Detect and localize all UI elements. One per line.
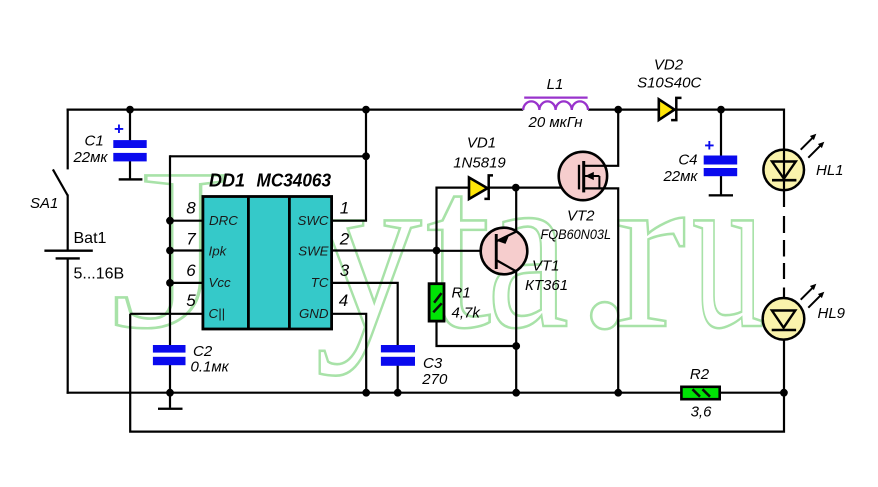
- wire pin6: [170, 282, 202, 284]
- node pin7: [166, 247, 174, 255]
- svg-text:4: 4: [339, 291, 348, 310]
- svg-text:DRC: DRC: [209, 213, 238, 228]
- svg-text:3,6: 3,6: [691, 404, 713, 421]
- svg-text:C3: C3: [423, 355, 443, 372]
- LED HL9: [763, 284, 825, 340]
- LED HL1: [763, 134, 824, 191]
- wire VT1 emitter up: [515, 188, 517, 233]
- wire R1 top: [435, 251, 437, 284]
- node VD1 cathode gate: [512, 184, 520, 192]
- svg-text:S10S40C: S10S40C: [637, 75, 701, 92]
- svg-text:1N5819: 1N5819: [453, 155, 506, 172]
- node pin6: [166, 279, 174, 287]
- svg-text:5...16В: 5...16В: [74, 266, 125, 283]
- svg-text:2: 2: [339, 230, 350, 249]
- node R2 right: [780, 389, 788, 397]
- svg-text:8: 8: [186, 199, 196, 218]
- svg-text:20 мкГн: 20 мкГн: [528, 114, 583, 131]
- node R1 bottom: [512, 342, 520, 350]
- node pin8: [166, 217, 174, 225]
- svg-text:SWC: SWC: [297, 213, 328, 228]
- wire VT2 drain to L1 node: [584, 110, 619, 166]
- svg-text:Ipk: Ipk: [209, 244, 228, 259]
- node pin4 ground: [362, 389, 370, 397]
- svg-text:TC: TC: [311, 275, 329, 290]
- svg-text:FQB60N03L: FQB60N03L: [541, 227, 612, 242]
- wire C2 bottom to rail: [169, 365, 171, 393]
- wire R1 bottom to collector: [437, 322, 517, 347]
- resistor R1: [429, 284, 444, 321]
- svg-text:6: 6: [186, 261, 196, 280]
- capacitor C4: [704, 136, 738, 197]
- battery Bat1: [44, 195, 92, 259]
- transistor VT2 FQB60N03L: [559, 152, 607, 200]
- wire top rail left of L1: [67, 108, 524, 110]
- svg-text:VD2: VD2: [654, 57, 684, 74]
- inductor L1: [523, 98, 588, 110]
- wire top rail right of L1: [588, 108, 784, 110]
- wire VD1 cathode to gate node: [489, 187, 579, 189]
- wire pin2 SWE: [332, 249, 437, 251]
- wire R2 right to junction: [721, 392, 784, 394]
- wire C4 bottom: [720, 176, 722, 195]
- wire pin4 GND down: [332, 314, 366, 393]
- wire VD1 anode branch: [437, 188, 469, 251]
- capacitor C1: [113, 120, 146, 181]
- node Vcc feed top: [362, 106, 370, 114]
- wire dashed HL1-HL9: [783, 216, 785, 279]
- svg-text:Vcc: Vcc: [209, 275, 232, 290]
- svg-text:SWE: SWE: [298, 244, 328, 259]
- svg-text:7: 7: [186, 230, 196, 249]
- svg-text:5: 5: [186, 291, 196, 310]
- resistor R2: [681, 387, 719, 399]
- node C4 top: [717, 106, 725, 114]
- wire pin7: [170, 249, 202, 251]
- node C3 ground: [394, 389, 402, 397]
- wire pin3 TC to C3: [332, 283, 398, 346]
- svg-text:C1: C1: [85, 133, 104, 150]
- node C2 ground: [166, 389, 174, 397]
- wire VT1 collector down: [515, 271, 517, 393]
- svg-text:HL1: HL1: [816, 162, 844, 179]
- svg-text:SA1: SA1: [30, 195, 58, 212]
- wire left feed vertical: [169, 155, 171, 345]
- svg-text:VT2: VT2: [567, 208, 595, 225]
- ground bar under C2: [158, 393, 183, 410]
- wire C1 bottom: [129, 161, 131, 179]
- wire left rail top (to switch): [67, 109, 69, 170]
- svg-text:VT1: VT1: [532, 258, 560, 275]
- wire right corner down to HL1: [783, 109, 785, 151]
- svg-text:L1: L1: [547, 76, 564, 93]
- wire Vcc vertical pin1: [332, 110, 366, 221]
- wire VT2 source to ground: [584, 188, 619, 392]
- svg-text:22мк: 22мк: [72, 149, 108, 166]
- transistor VT1 KT361: [481, 228, 528, 275]
- svg-text:4,7k: 4,7k: [452, 305, 482, 322]
- wire feed horizontal: [170, 155, 366, 157]
- wire lower sense rail: [130, 314, 784, 432]
- svg-text:+: +: [704, 136, 714, 155]
- svg-text:КТ361: КТ361: [525, 277, 568, 294]
- node VT2 source ground: [614, 389, 622, 397]
- diode VD2 S10S40C: [659, 98, 682, 120]
- wire C4 top: [720, 110, 722, 156]
- diode VD1 1N5819: [469, 175, 493, 199]
- svg-text:+: +: [114, 120, 124, 139]
- svg-text:1: 1: [340, 199, 349, 218]
- svg-text:Bat1: Bat1: [74, 230, 107, 247]
- node L1 out: [614, 106, 622, 114]
- node VT1 collector ground: [512, 389, 520, 397]
- capacitor C2: [153, 345, 186, 365]
- svg-text:22мк: 22мк: [662, 168, 698, 185]
- svg-text:R2: R2: [690, 366, 710, 383]
- wire C3 bottom: [397, 365, 399, 392]
- svg-text:3: 3: [340, 261, 350, 280]
- wire battery to bottom rail: [67, 258, 69, 393]
- watermark Joyta.ru: [110, 121, 764, 376]
- svg-text:R1: R1: [452, 285, 471, 302]
- node feed T: [362, 152, 370, 160]
- svg-text:GND: GND: [299, 306, 329, 321]
- wire pin5 C||: [130, 313, 202, 315]
- wire HL9 vertical: [783, 288, 785, 393]
- node C1 top: [126, 106, 134, 114]
- svg-text:0.1мк: 0.1мк: [191, 358, 230, 375]
- svg-text:270: 270: [421, 371, 448, 388]
- switch SA1: [53, 169, 68, 195]
- wire pin8: [170, 220, 202, 222]
- wire HL1 vertical: [783, 149, 785, 207]
- svg-text:MC34063: MC34063: [257, 170, 332, 190]
- node VD1 anode: [433, 247, 441, 255]
- svg-text:VD1: VD1: [467, 135, 496, 152]
- svg-text:HL9: HL9: [818, 305, 846, 322]
- svg-text:C4: C4: [678, 152, 697, 169]
- capacitor C3: [381, 345, 415, 366]
- wire ground rail: [67, 392, 681, 394]
- wire VT1 base: [437, 250, 496, 252]
- svg-text:C||: C||: [209, 306, 226, 321]
- svg-text:DD1: DD1: [209, 170, 245, 190]
- svg-text:r: r: [614, 121, 686, 376]
- IC DD1 MC34063: [203, 197, 332, 330]
- wire C1 top: [129, 110, 131, 141]
